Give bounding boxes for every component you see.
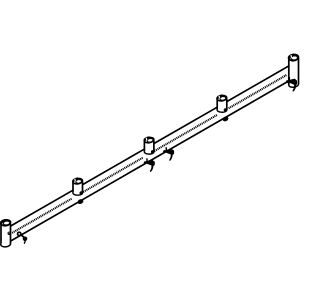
right sleeve rim slot [290, 55, 293, 58]
post P1 left side [72, 181, 74, 193]
post P3 left side [216, 98, 218, 110]
left clip tail [24, 241, 25, 244]
left sleeve top rim [0, 219, 11, 226]
left clip ball [23, 237, 28, 242]
post P3 bore opening [220, 96, 226, 100]
left sleeve dark rim [1, 220, 6, 224]
post P2 right side [153, 141, 155, 153]
post P2 base clamp dot [151, 150, 155, 154]
left sleeve bore [3, 221, 10, 226]
post P2 top rim [144, 137, 154, 144]
post P2 left side [143, 140, 145, 152]
post P1 top rim [73, 178, 83, 185]
left end sleeve left side [0, 223, 2, 244]
post P3 right side [226, 99, 228, 111]
right sleeve top rim [288, 54, 299, 62]
left eyelet clip ring [17, 231, 22, 236]
post P3 rim slot [218, 96, 221, 98]
left sleeve bottom arc [1, 244, 11, 247]
post P1 base arc [73, 193, 83, 196]
claw hanger A [144, 161, 147, 164]
left clip arm [21, 235, 24, 237]
right sleeve dark rim [289, 55, 294, 59]
post P2 dark rim crescent [145, 138, 150, 142]
lug under post P3 [222, 116, 229, 123]
post P1 right side [82, 182, 84, 194]
left end sleeve right side [10, 224, 12, 245]
lug under post P1 [77, 198, 84, 205]
post P1 dark rim crescent [73, 179, 78, 183]
rail top edge [11, 66, 289, 226]
right end claw hanger [286, 80, 289, 83]
post P2 bore opening [147, 138, 153, 142]
post P3 base arc [217, 110, 227, 113]
right end sleeve left side [288, 58, 290, 85]
post P3 top rim [217, 95, 227, 102]
post P1 rim slot [74, 179, 77, 181]
post P2 rim slot [145, 138, 148, 140]
post P1 base clamp dot [80, 191, 84, 195]
post P1 bore opening [75, 179, 81, 183]
left sleeve screw [8, 232, 11, 235]
rail bottom edge [11, 81, 289, 241]
right sleeve bottom arc [289, 84, 299, 87]
post P3 dark rim crescent [218, 96, 223, 100]
claw hanger B [163, 150, 166, 153]
right sleeve bore [291, 55, 298, 60]
post P2 base arc [144, 152, 154, 155]
rail serrated strip [12, 74, 286, 233]
post P3 base clamp dot [224, 108, 228, 112]
right end sleeve right side [298, 58, 300, 85]
